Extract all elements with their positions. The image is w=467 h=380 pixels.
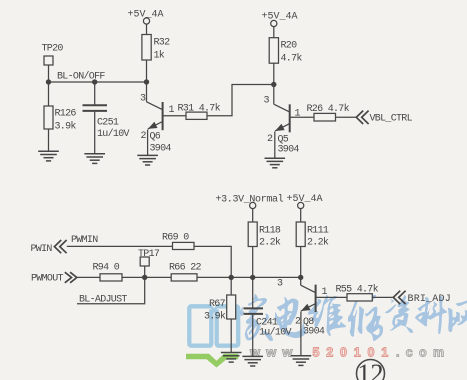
svg-text:1: 1 [295,109,301,120]
svg-text:R69 0: R69 0 [162,233,189,244]
svg-text:12: 12 [358,359,384,380]
svg-text:2.2k: 2.2k [307,237,329,249]
svg-text:3: 3 [264,96,270,107]
svg-text:PWMIN: PWMIN [71,235,98,246]
svg-text:1: 1 [322,287,328,298]
svg-text:R31 4.7k: R31 4.7k [178,103,221,115]
svg-text:3: 3 [140,94,146,105]
svg-text:3.9k: 3.9k [204,311,226,323]
svg-text:BRI_ADJ: BRI_ADJ [408,294,451,305]
svg-text:4.7k: 4.7k [281,53,303,65]
svg-text:520101: 520101 [313,346,396,360]
svg-text:+3.3V_Normal: +3.3V_Normal [216,194,284,206]
svg-text:PWMOUT: PWMOUT [31,274,64,285]
svg-text:Q6: Q6 [150,132,161,143]
svg-text:+5V_4A: +5V_4A [128,10,164,21]
svg-text:R67: R67 [209,299,226,310]
svg-text:R66 22: R66 22 [169,263,202,274]
svg-text:BL-ON/OFF: BL-ON/OFF [57,71,105,83]
svg-text:2.2k: 2.2k [259,237,281,249]
svg-text:+5V_4A: +5V_4A [262,12,298,23]
svg-text:2: 2 [267,134,273,145]
svg-text:2: 2 [141,131,147,142]
svg-text:TP17: TP17 [138,249,160,260]
svg-text:3904: 3904 [150,144,172,155]
svg-text:C251: C251 [97,118,119,129]
svg-text:3.9k: 3.9k [55,121,77,133]
svg-text:1u/10V: 1u/10V [97,128,130,140]
svg-text:1u/10V: 1u/10V [259,327,292,339]
svg-text:R126: R126 [55,109,77,120]
svg-text:+5V_4A: +5V_4A [287,194,323,205]
svg-text:R118: R118 [259,226,281,237]
svg-text:PWIN: PWIN [31,244,53,255]
svg-text:BL-ADJUST: BL-ADJUST [79,295,127,306]
svg-text:VBL_CTRL: VBL_CTRL [370,114,413,125]
svg-text:R26 4.7k: R26 4.7k [307,103,350,115]
svg-text:www: www [249,345,298,360]
svg-text:2: 2 [295,317,301,328]
svg-text:R55 4.7k: R55 4.7k [336,284,379,296]
svg-text:3904: 3904 [303,327,325,338]
svg-text:R32: R32 [154,38,171,49]
svg-text:R111: R111 [307,226,329,237]
svg-text:3904: 3904 [278,145,300,156]
svg-text:R94 0: R94 0 [93,263,120,274]
svg-text:1k: 1k [154,50,165,62]
svg-text:TP20: TP20 [42,44,64,55]
svg-text:R20: R20 [281,41,298,52]
svg-text:.com: .com [396,346,450,360]
svg-text:3: 3 [277,279,283,290]
svg-text:1: 1 [169,105,175,116]
